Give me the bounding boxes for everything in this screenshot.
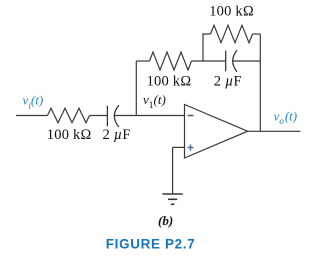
resistor 100k input <box>48 108 90 122</box>
wire top resistor to right vertical <box>253 33 261 35</box>
svg-text:(b): (b) <box>158 213 173 228</box>
wire junction up to top resistor <box>203 34 211 61</box>
op-amp plus pin mark <box>188 145 194 151</box>
svg-text:100 kΩ: 100 kΩ <box>147 74 192 90</box>
svg-text:2 µF: 2 µF <box>103 127 131 143</box>
svg-text:FIGURE P2.7: FIGURE P2.7 <box>106 237 196 252</box>
capacitor 2uF input <box>106 106 108 127</box>
resistor 100k feedback top <box>211 25 253 43</box>
op-amp minus pin mark <box>188 115 194 117</box>
wire capacitor to right vertical <box>233 60 260 62</box>
wire plus input down to ground <box>172 147 174 193</box>
svg-text:vi(t): vi(t) <box>23 93 44 113</box>
wire v1 junction up <box>135 61 137 116</box>
wire resistor to parallel junction <box>192 60 226 62</box>
resistor 100k feedback series <box>150 52 192 70</box>
wire feedback right vertical <box>259 34 261 131</box>
svg-text:100 kΩ: 100 kΩ <box>209 3 254 19</box>
svg-text:v1(t): v1(t) <box>143 92 166 111</box>
ground <box>162 193 182 195</box>
wire capacitor to op-amp minus input <box>114 115 184 117</box>
output wire <box>248 130 301 132</box>
wire resistor to capacitor <box>90 115 109 117</box>
input wire <box>16 115 48 117</box>
svg-text:vo(t): vo(t) <box>274 109 298 127</box>
svg-text:100 kΩ: 100 kΩ <box>47 127 92 143</box>
svg-text:2 µF: 2 µF <box>214 74 242 90</box>
capacitor 2uF feedback <box>225 51 227 72</box>
wire plus input <box>173 146 185 148</box>
wire stub to middle resistor <box>136 60 149 62</box>
op-amp U1 <box>185 105 248 159</box>
